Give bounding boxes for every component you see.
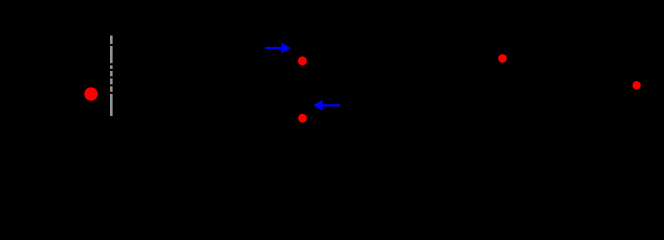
image point 4 (red dot)	[632, 81, 640, 89]
propagation arrow right (blue)	[265, 43, 291, 54]
source point S (large red dot)	[84, 87, 97, 100]
propagation arrow left (blue)	[313, 100, 340, 111]
image point 3 (red dot)	[498, 54, 507, 63]
lens plane (gray dashed vertical line, irregular dash segments)	[110, 36, 113, 117]
image point 2 (red dot)	[298, 114, 307, 123]
image point 1 (red dot)	[298, 56, 307, 65]
